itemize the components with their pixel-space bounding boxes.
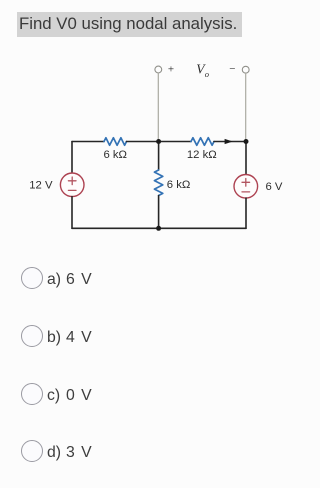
wire bottom rail bbox=[72, 227, 246, 229]
wire middle branch lower segment bbox=[158, 196, 160, 229]
junction node C (bottom) bbox=[156, 226, 161, 231]
junction node B bbox=[244, 139, 249, 144]
junction node A bbox=[156, 139, 161, 144]
resistor R2 12 kOhm horizontal bbox=[191, 138, 214, 146]
terminal T1 (+) open circle bbox=[155, 66, 162, 73]
svg-text:+: + bbox=[168, 63, 174, 75]
wire right branch lower segment bbox=[245, 198, 247, 228]
resistor R3 6 kOhm vertical bbox=[154, 170, 162, 196]
wire from terminal T2 down to node B bbox=[245, 73, 247, 140]
label - (polarity of Vo) bbox=[229, 63, 235, 75]
wire from terminal T1 down to node A bbox=[157, 73, 159, 140]
label Vo bbox=[196, 61, 209, 79]
label + (polarity of Vo) bbox=[168, 63, 174, 75]
wire top-left: corner to resistor R1 bbox=[72, 141, 104, 143]
terminal T2 (-) open circle bbox=[242, 66, 249, 73]
wire middle branch upper segment bbox=[158, 142, 160, 171]
voltage source V1 12 V bbox=[60, 173, 84, 197]
svg-text:12 kΩ: 12 kΩ bbox=[187, 149, 217, 161]
svg-text:6 kΩ: 6 kΩ bbox=[103, 149, 127, 161]
voltage source V2 6 V bbox=[234, 175, 258, 199]
svg-text:6 kΩ: 6 kΩ bbox=[167, 179, 191, 191]
wire left branch upper segment bbox=[71, 142, 73, 174]
svg-text:12 V: 12 V bbox=[29, 180, 53, 192]
svg-text:−: − bbox=[229, 63, 235, 75]
svg-text:6 V: 6 V bbox=[266, 181, 283, 193]
wire left branch lower segment bbox=[71, 197, 73, 229]
label 6 kOhm for R3 bbox=[167, 179, 191, 191]
wire right branch upper segment bbox=[245, 142, 247, 175]
resistor R1 6 kOhm horizontal bbox=[104, 138, 127, 146]
label 12 V bbox=[29, 180, 53, 192]
label 6 kOhm for R1 bbox=[103, 149, 127, 161]
wire from R2 to node B with current arrow bbox=[214, 139, 246, 144]
wire from R1 to node A bbox=[127, 141, 159, 143]
label 12 kOhm for R2 bbox=[187, 149, 217, 161]
svg-text:o: o bbox=[205, 69, 209, 79]
label 6 V bbox=[266, 181, 283, 193]
wire from node A to resistor R2 bbox=[159, 141, 191, 143]
